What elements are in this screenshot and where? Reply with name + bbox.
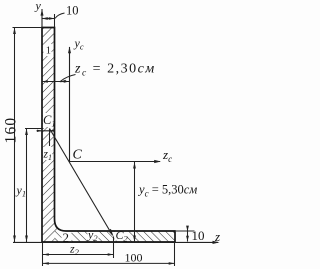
svg-text:z: z: [214, 229, 220, 244]
dimension y1: top arrow: [25, 129, 28, 136]
dimension 100: left arrow: [43, 262, 49, 265]
dimension 160: bottom arrow: [13, 236, 16, 243]
extension line top left: [13, 27, 43, 29]
zc axis arrow: [154, 160, 161, 163]
dimension z2: left arrow: [43, 253, 49, 256]
svg-text:y1: y1: [16, 183, 27, 199]
svg-text:100: 100: [125, 251, 143, 265]
label gap 1: [44, 44, 52, 56]
leader zc text: [61, 75, 76, 82]
dimension 10 top: left arrow: [42, 17, 48, 20]
dimension z2: line: [43, 254, 114, 256]
svg-text:160: 160: [3, 117, 20, 144]
svg-text:z2: z2: [69, 242, 80, 258]
dimension zc: right arrow: [64, 80, 70, 83]
dimension 160: line: [14, 28, 16, 243]
dimension zc: left arrow: [42, 80, 48, 83]
svg-text:C: C: [73, 148, 83, 163]
svg-text:yc = 5,30см: yc = 5,30см: [137, 183, 197, 199]
dimension zc: line: [42, 81, 70, 83]
dimension y1: bottom arrow: [25, 236, 28, 243]
svg-text:1: 1: [46, 46, 51, 57]
yc axis: [69, 47, 71, 162]
dimension 10 right: extension top: [176, 230, 195, 232]
zc axis: [69, 161, 160, 163]
dimension z2: right arrow: [108, 253, 114, 256]
hatch area rectangle 1: [42, 28, 55, 243]
leader for 10: [55, 13, 64, 18]
yc axis arrow: [68, 47, 71, 54]
dimension yc: top arrow: [133, 162, 136, 169]
extension line C1 level: [25, 128, 44, 130]
dimension 10 right: top arrow: [186, 226, 189, 232]
svg-text:10: 10: [66, 4, 79, 18]
hatch area fillet: [55, 219, 67, 231]
label gap C1: [43, 113, 54, 127]
extension tick at C1 x: [49, 129, 51, 147]
dimension 100: right arrow: [169, 262, 175, 265]
extension tick C2 down: [113, 237, 115, 259]
svg-text:2: 2: [63, 230, 70, 245]
y axis: [41, 9, 43, 28]
dimension z1: right arrow: [50, 130, 55, 132]
z axis: [13, 241, 218, 243]
leader zc arrowhead: [60, 80, 67, 82]
label gap y2: [88, 230, 99, 240]
dimension 160: top arrow: [13, 28, 16, 35]
dimension 100: line: [43, 262, 175, 264]
svg-text:zc = 2,30см: zc = 2,30см: [74, 62, 156, 79]
dimension z1: line with outside arrows: [37, 130, 55, 132]
dimension 10 right: line: [187, 226, 189, 242]
dimension 10 top: extension right: [54, 14, 56, 28]
L-section outline: [42, 28, 175, 243]
label gap C2: [115, 229, 128, 241]
label gap z1: [43, 147, 53, 160]
dimension yc: line: [134, 162, 136, 242]
diagonal arrowhead at C2: [108, 229, 114, 237]
dimension 10 top: line: [42, 18, 55, 20]
dimension yc: bottom arrow: [133, 236, 136, 243]
hatch area rectangle 2: [55, 231, 176, 242]
label gap 2: [62, 232, 72, 242]
dimension 10 right: bottom arrow: [186, 236, 189, 242]
dimension z1: left arrow: [37, 130, 42, 132]
svg-text:yc: yc: [74, 36, 84, 52]
extension bottom-right down: [174, 242, 176, 266]
dimension y1: line: [26, 129, 28, 243]
diagonal C1 to C2: [50, 129, 113, 235]
y axis arrow: [41, 9, 44, 16]
extension bottom-left down: [42, 242, 44, 266]
dimension 10 top: right arrow: [49, 17, 55, 20]
svg-text:10: 10: [192, 228, 205, 243]
svg-text:y: y: [35, 0, 42, 13]
svg-text:zc: zc: [162, 147, 172, 164]
z axis arrow: [213, 241, 220, 244]
